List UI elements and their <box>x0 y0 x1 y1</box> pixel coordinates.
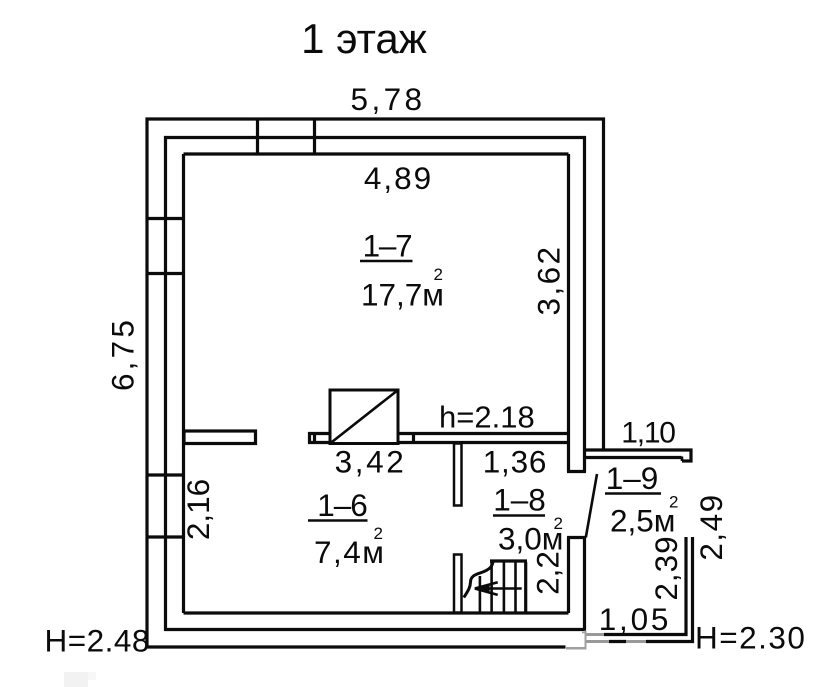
inner wall bottom line <box>184 611 569 614</box>
door opening bottom jamb <box>567 536 586 539</box>
underline 1-7 <box>360 260 413 263</box>
arrow lower barb <box>475 589 498 595</box>
underline 1-6 <box>308 519 368 522</box>
annex bottom outer line grey dash <box>626 640 646 643</box>
outer wall top line <box>146 117 606 120</box>
right wall middle line lower segment <box>583 538 586 630</box>
svg-text:1–9: 1–9 <box>606 460 659 496</box>
svg-text:2,39: 2,39 <box>648 535 684 600</box>
right wall middle line upper segment <box>583 136 586 472</box>
inner right wall lower segment <box>567 538 570 614</box>
annex wall right cap <box>689 449 692 463</box>
faint watermark patch bottom left part 2 <box>88 672 96 680</box>
svg-text:h=2.18: h=2.18 <box>439 400 535 435</box>
furnace diagonal <box>330 390 398 444</box>
door swing line room 1-9 <box>586 474 597 538</box>
svg-text:2: 2 <box>434 265 443 284</box>
window tick left wall 4 <box>146 535 186 538</box>
annex bottom outer line black dash <box>609 640 626 643</box>
svg-text:2,2: 2,2 <box>530 551 566 595</box>
window tick top wall 1 <box>256 118 259 156</box>
outer wall left line <box>145 118 148 649</box>
svg-text:2,5м: 2,5м <box>610 503 675 539</box>
furnace square <box>330 390 398 444</box>
annex bottom inner line <box>604 633 688 636</box>
band left tick <box>313 432 316 444</box>
window tick top wall 2 <box>313 118 316 156</box>
svg-text:1 этаж: 1 этаж <box>301 15 427 62</box>
stair riser 1 <box>479 576 482 612</box>
annex right wall inner line <box>684 537 687 636</box>
annex right wall outer line <box>691 537 694 643</box>
annex bottom inner line grey part <box>585 633 604 636</box>
inner wall left line <box>182 154 185 613</box>
annex 1,10 wall bottom line <box>585 456 682 459</box>
band left end cap <box>308 432 311 444</box>
svg-text:2,16: 2,16 <box>180 479 216 540</box>
svg-text:Н=2.48: Н=2.48 <box>45 623 150 659</box>
svg-text:6,75: 6,75 <box>105 317 141 391</box>
annex 1,10 wall top line <box>585 448 693 451</box>
annex bottom outer line grey part <box>585 640 609 643</box>
arrow head <box>475 584 490 594</box>
window tick left wall 2 <box>146 272 186 275</box>
inner wall top line <box>184 152 569 155</box>
annex wall step vertical <box>681 457 684 462</box>
underline 1-8 <box>493 514 545 517</box>
wall between 1-6 and 1-8 lower segment <box>454 555 462 613</box>
stair riser 4 <box>514 562 517 612</box>
svg-text:2: 2 <box>554 514 563 533</box>
underline 1-9 <box>605 492 661 495</box>
svg-text:1,36: 1,36 <box>483 444 548 480</box>
band right tick <box>412 432 415 444</box>
stairs direction arrow shaft <box>476 587 522 590</box>
stairs top edge <box>490 559 527 562</box>
faint watermark patch bottom left <box>64 672 88 687</box>
svg-text:4,89: 4,89 <box>364 160 433 196</box>
window tick left wall 3 <box>146 473 186 476</box>
annex bottom outer line <box>646 640 694 643</box>
svg-text:1–6: 1–6 <box>317 487 367 523</box>
interior wall band h=2.18 bottom line <box>308 441 569 444</box>
watermark white box <box>566 632 587 650</box>
watermark box top border <box>582 632 587 634</box>
svg-text:17,7м: 17,7м <box>361 277 444 313</box>
middle wall left line <box>164 136 167 631</box>
svg-text:3,62: 3,62 <box>531 245 567 316</box>
arrow upper barb <box>475 582 498 588</box>
svg-text:5,78: 5,78 <box>351 81 426 117</box>
middle wall top line <box>164 136 586 139</box>
outer wall right line <box>602 118 605 452</box>
interior stub wall left <box>184 431 256 444</box>
middle wall bottom line <box>164 628 586 631</box>
stair riser 2 <box>490 562 493 612</box>
annex wall step horizontal <box>682 459 693 462</box>
window tick left wall 1 <box>146 217 186 220</box>
svg-text:1–7: 1–7 <box>363 228 412 264</box>
svg-text:1,05: 1,05 <box>599 601 672 637</box>
svg-text:1,10: 1,10 <box>621 417 675 450</box>
stair riser 3 <box>503 562 506 612</box>
stair riser 5 <box>524 562 527 612</box>
interior wall band h=2.18 top line <box>308 432 569 435</box>
watermark box bottom border grey <box>566 647 587 650</box>
outer wall bottom line <box>146 645 567 648</box>
stairs break squiggle <box>464 560 493 597</box>
watermark box right border <box>585 631 587 650</box>
svg-text:Н=2.30: Н=2.30 <box>695 620 806 656</box>
svg-text:2: 2 <box>374 524 383 543</box>
svg-text:3,42: 3,42 <box>335 444 407 480</box>
svg-text:2,49: 2,49 <box>693 493 729 560</box>
inner wall right line upper segment <box>567 154 570 472</box>
svg-text:1–8: 1–8 <box>493 482 546 518</box>
wall between 1-6 and 1-8 upper segment <box>454 444 462 506</box>
door opening top cap <box>567 470 586 473</box>
svg-text:2: 2 <box>669 493 678 512</box>
